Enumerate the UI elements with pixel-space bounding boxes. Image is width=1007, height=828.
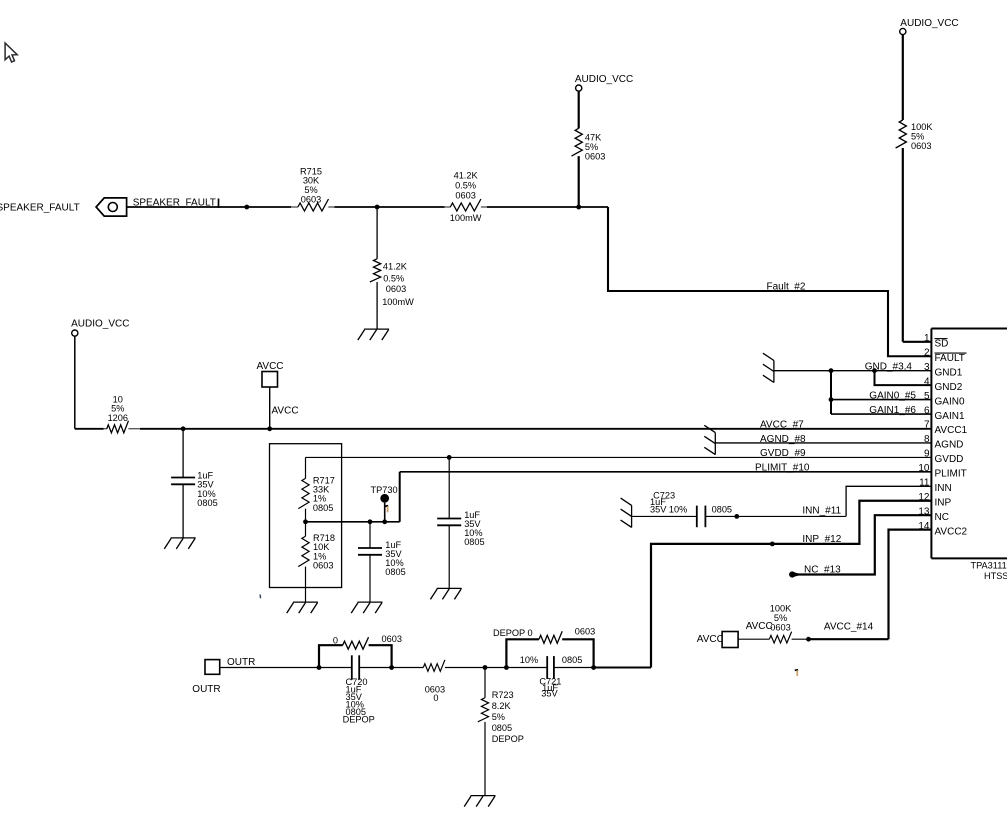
svg-text:AUDIO_VCC: AUDIO_VCC	[900, 18, 958, 29]
svg-text:GAIN1_#6: GAIN1_#6	[869, 405, 916, 416]
svg-text:4: 4	[924, 376, 930, 387]
svg-text:0805: 0805	[197, 498, 217, 508]
svg-text:GND2: GND2	[935, 382, 963, 393]
svg-text:0: 0	[333, 636, 338, 646]
svg-text:TPA3111D: TPA3111D	[971, 561, 1007, 571]
svg-text:HTSSO: HTSSO	[984, 571, 1007, 581]
svg-text:0603: 0603	[455, 190, 475, 200]
svg-text:5: 5	[924, 391, 930, 402]
svg-text:AVCC: AVCC	[697, 634, 724, 645]
svg-text:0805: 0805	[492, 723, 512, 733]
svg-text:PLIMIT: PLIMIT	[935, 469, 967, 480]
svg-text:0603: 0603	[382, 634, 402, 644]
svg-text:8.2K: 8.2K	[492, 701, 512, 711]
svg-text:SD: SD	[935, 339, 949, 350]
svg-text:0805: 0805	[313, 503, 333, 513]
svg-text:INP_#12: INP_#12	[802, 534, 841, 545]
svg-text:AVCC: AVCC	[256, 361, 283, 372]
svg-text:0603: 0603	[386, 284, 406, 294]
svg-text:R723: R723	[492, 690, 514, 700]
svg-text:0603: 0603	[911, 141, 931, 151]
svg-text:7: 7	[924, 420, 930, 431]
svg-text:NC: NC	[935, 512, 949, 523]
svg-text:TP730: TP730	[371, 485, 398, 495]
svg-text:AVCC2: AVCC2	[935, 526, 968, 537]
svg-text:SPEAKER_FAULT: SPEAKER_FAULT	[0, 203, 80, 214]
svg-text:3: 3	[924, 362, 930, 373]
svg-text:AVCC_#7: AVCC_#7	[760, 419, 804, 430]
svg-text:5%: 5%	[774, 613, 787, 623]
svg-text:0805: 0805	[464, 537, 484, 547]
svg-text:AVCC: AVCC	[746, 621, 773, 632]
svg-text:INP: INP	[935, 497, 952, 508]
svg-text:GND_#3,4: GND_#3,4	[865, 362, 913, 373]
svg-text:GAIN0: GAIN0	[935, 396, 965, 407]
svg-text:AUDIO_VCC: AUDIO_VCC	[575, 74, 633, 85]
svg-text:AVCC: AVCC	[272, 406, 299, 417]
svg-text:PLIMIT_#10: PLIMIT_#10	[755, 463, 810, 474]
svg-text:0805: 0805	[712, 504, 732, 514]
svg-text:0805: 0805	[385, 567, 405, 577]
svg-text:0603: 0603	[301, 195, 321, 205]
svg-text:0.5%: 0.5%	[383, 273, 404, 283]
svg-text:0603: 0603	[313, 561, 333, 571]
svg-text:GVDD: GVDD	[935, 454, 964, 465]
svg-text:0603: 0603	[585, 151, 605, 161]
svg-text:AVCC1: AVCC1	[935, 425, 968, 436]
svg-text:5%: 5%	[492, 712, 505, 722]
svg-text:11: 11	[919, 478, 930, 489]
svg-text:41.2K: 41.2K	[383, 262, 408, 272]
svg-text:GVDD_#9: GVDD_#9	[760, 448, 806, 459]
svg-text:INN: INN	[935, 483, 952, 494]
svg-text:0603: 0603	[575, 626, 595, 636]
svg-text:1206: 1206	[108, 413, 128, 423]
svg-text:0: 0	[433, 693, 438, 703]
svg-text:AVCC_#14: AVCC_#14	[824, 622, 874, 633]
svg-text:Fault_#2: Fault_#2	[767, 282, 806, 293]
svg-text:0603: 0603	[770, 623, 790, 633]
svg-text:NC_#13: NC_#13	[804, 565, 841, 576]
svg-text:12: 12	[918, 492, 930, 503]
svg-text:0805: 0805	[562, 655, 582, 665]
svg-text:GND1: GND1	[935, 367, 963, 378]
svg-text:10: 10	[918, 463, 930, 474]
svg-text:14: 14	[918, 521, 930, 532]
svg-text:35V: 35V	[541, 689, 558, 699]
svg-text:0.5%: 0.5%	[455, 180, 476, 190]
svg-text:AGND: AGND	[935, 440, 964, 451]
svg-text:1: 1	[924, 333, 930, 344]
svg-text:35V 10%: 35V 10%	[650, 505, 687, 515]
svg-text:OUTR: OUTR	[227, 657, 255, 668]
svg-text:13: 13	[918, 506, 930, 517]
svg-text:GAIN0_#5: GAIN0_#5	[869, 391, 916, 402]
svg-text:100mW: 100mW	[382, 297, 414, 307]
svg-text:GAIN1: GAIN1	[935, 411, 965, 422]
svg-text:AUDIO_VCC: AUDIO_VCC	[71, 319, 129, 330]
svg-text:DEPOP 0: DEPOP 0	[493, 628, 533, 638]
svg-text:10%: 10%	[520, 655, 538, 665]
svg-text:AGND_#8: AGND_#8	[760, 434, 806, 445]
svg-text:6: 6	[924, 405, 930, 416]
svg-text:9: 9	[924, 449, 930, 460]
svg-text:100mW: 100mW	[450, 213, 482, 223]
svg-text:INN_#11: INN_#11	[802, 506, 841, 517]
svg-text:DEPOP: DEPOP	[492, 734, 524, 744]
svg-text:41.2K: 41.2K	[454, 170, 479, 180]
svg-text:2: 2	[924, 347, 930, 358]
svg-text:100K: 100K	[770, 604, 792, 614]
svg-text:8: 8	[924, 434, 930, 445]
svg-text:FAULT: FAULT	[935, 353, 965, 364]
svg-text:OUTR: OUTR	[192, 684, 220, 695]
svg-text:DEPOP: DEPOP	[343, 714, 375, 724]
